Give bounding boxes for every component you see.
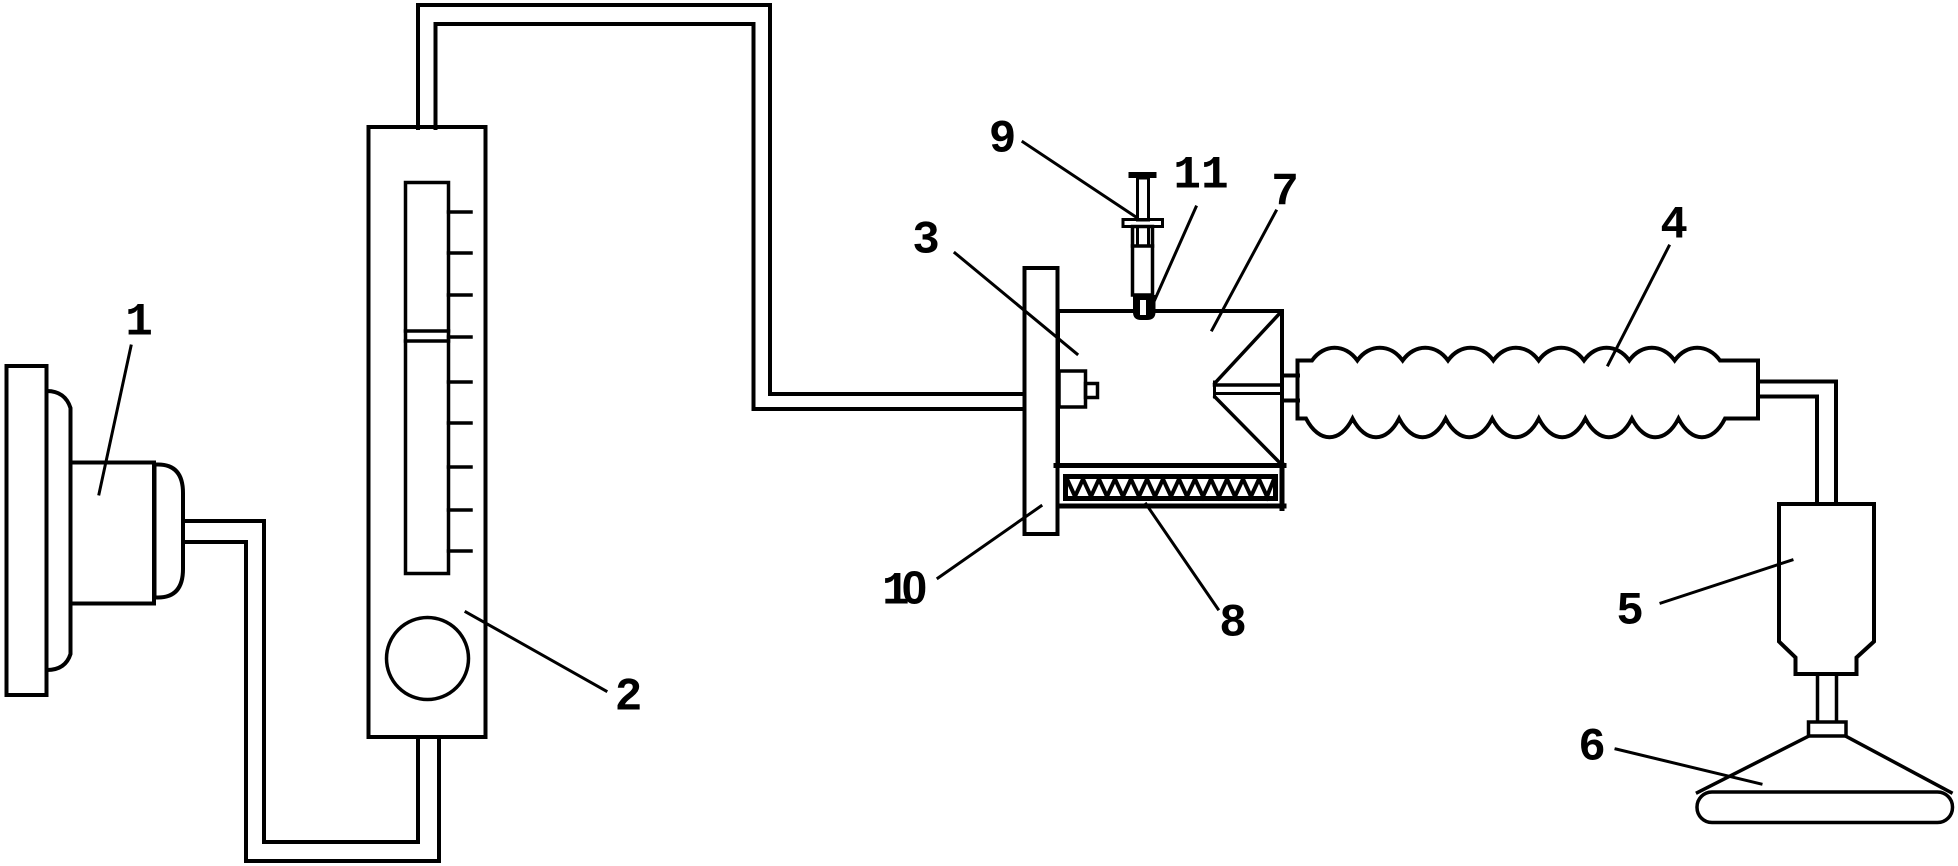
- flowmeter 2: scale tick 8: [449, 508, 472, 512]
- flowmeter 2: scale tick 1: [449, 210, 472, 214]
- leader line 2: [466, 612, 606, 691]
- svg-text:3: 3: [912, 215, 940, 267]
- flowmeter 2: float line lower: [406, 339, 449, 343]
- air source device 1: cylindrical body: [71, 463, 155, 604]
- corrugated hose 4: left end edge: [1296, 361, 1300, 419]
- coupling stub: box outlet to corrugated pipe, lower line: [1282, 399, 1298, 403]
- flowmeter 2: scale tick 9: [449, 549, 472, 553]
- svg-text:10: 10: [882, 562, 927, 618]
- flowmeter 2: scale tick 6: [449, 421, 472, 425]
- collection bottle 5: body: [1779, 504, 1874, 674]
- svg-text:2: 2: [615, 672, 643, 724]
- flowmeter 2: scale tick 7: [449, 465, 472, 469]
- flowmeter 2: scale tick 5: [449, 380, 472, 384]
- flowmeter 2: scale tick 2: [449, 251, 472, 255]
- mounting plate 10: [1025, 268, 1058, 534]
- flowmeter 2: outer case: [369, 127, 486, 737]
- syringe 9: plunger seal line: [1133, 244, 1153, 248]
- leader line 8: [1146, 504, 1218, 609]
- bottle stem right wall: [1835, 674, 1839, 722]
- flowmeter 2: inner glass tube: [406, 183, 449, 574]
- corrugated hose 4: bottom corrugated edge: [1298, 419, 1759, 438]
- syringe injection port 11: white slot: [1140, 300, 1146, 315]
- syringe 9: plunger T-handle: [1129, 172, 1157, 178]
- syringe 9: barrel: [1133, 227, 1153, 296]
- leader line 1: [99, 346, 131, 494]
- heater 8: inner thick frame: [1066, 477, 1276, 499]
- outlet funnel: lower diagonal: [1215, 397, 1281, 464]
- syringe 9: rod below flange right wall: [1147, 227, 1150, 247]
- svg-text:8: 8: [1219, 598, 1247, 650]
- leader line 5: [1661, 560, 1792, 603]
- leader line 11: [1152, 207, 1196, 306]
- outlet funnel: point vertical: [1213, 382, 1216, 397]
- flowmeter 2: scale tick 4: [449, 335, 472, 339]
- outlet funnel: channel lower line: [1215, 392, 1283, 395]
- pipe: flowmeter top to mixing box (outer wall): [418, 5, 1023, 394]
- coupling stub: box outlet to corrugated pipe, upper line: [1282, 374, 1298, 378]
- leader line 10: [938, 506, 1041, 578]
- leader line 7: [1212, 211, 1276, 330]
- flowmeter 2: scale tick 3: [449, 293, 472, 297]
- atomizing nozzle 3: tip: [1086, 384, 1098, 398]
- mixing box 7: right edge extension: [1280, 465, 1285, 509]
- svg-text:5: 5: [1616, 586, 1644, 638]
- funnel base 6: right cone line: [1846, 736, 1952, 793]
- flowmeter 2: float line upper: [406, 329, 449, 333]
- pipe: corrugated hose to collection bottle (outer wall): [1758, 382, 1836, 504]
- atomizing nozzle 3: body: [1059, 371, 1086, 407]
- svg-text:11: 11: [1173, 150, 1228, 202]
- funnel base 6: left cone line: [1698, 736, 1810, 793]
- pipe: flowmeter top to mixing box (inner wall): [436, 24, 1024, 409]
- corrugated hose 4: top corrugated edge: [1298, 348, 1759, 361]
- air source device 1: rounded end cap: [155, 465, 184, 598]
- leader line 6: [1616, 749, 1761, 784]
- svg-text:9: 9: [989, 114, 1017, 166]
- funnel collar: [1809, 722, 1847, 736]
- pipe: device 1 outlet to flowmeter bottom (inner wall): [183, 542, 439, 861]
- leader line 9: [1023, 142, 1136, 217]
- svg-text:6: 6: [1578, 722, 1606, 774]
- air source device 1: hub disc: [47, 391, 71, 670]
- heater 8: container bottom line: [1058, 504, 1284, 509]
- air source device 1: back plate: [7, 366, 47, 695]
- outlet funnel: upper diagonal: [1215, 313, 1280, 383]
- syringe 9: finger flange: [1123, 220, 1163, 227]
- mixing box 7: [1058, 311, 1282, 465]
- heater 8: zigzag element: [1067, 479, 1274, 497]
- flowmeter 2: valve knob circle: [387, 618, 469, 700]
- syringe 9: plunger rod: [1138, 178, 1149, 220]
- air source device 1: end cap divider: [153, 465, 157, 598]
- corrugated hose 4: right end edge: [1756, 361, 1760, 419]
- outlet funnel: channel upper line: [1215, 383, 1283, 387]
- syringe 9: rod below flange left wall: [1136, 227, 1139, 247]
- syringe 9: needle hub (filled): [1129, 295, 1156, 320]
- leader line 3: [955, 253, 1077, 354]
- funnel base 6: base dish: [1697, 792, 1953, 823]
- svg-text:1: 1: [125, 297, 153, 349]
- leader line 4: [1608, 246, 1669, 365]
- pipe: corrugated hose to collection bottle (inner wall): [1758, 397, 1817, 504]
- mixing box 7: thick bottom edge: [1056, 463, 1284, 468]
- svg-text:4: 4: [1660, 200, 1688, 252]
- bottle stem left wall: [1816, 674, 1820, 722]
- pipe: device 1 outlet to flowmeter bottom (outer wall): [183, 521, 418, 842]
